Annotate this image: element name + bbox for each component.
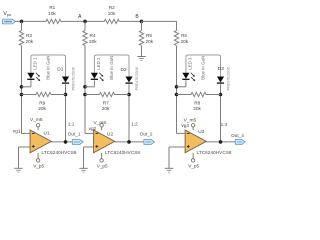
svg-text:R5: R5 [146,33,152,38]
net flag Out_1 [72,140,83,145]
wire noninverting input to ground [19,146,31,148]
LED emission arrows [191,73,194,76]
svg-text:vg4: vg4 [181,123,189,128]
wire V- pin [37,153,39,159]
svg-text:Blue In GaN: Blue In GaN [46,56,51,80]
wire V+ pin [192,127,194,130]
wire R4 top lead [84,21,86,30]
LED LED 3 [182,73,189,79]
svg-text:20k: 20k [102,106,110,112]
svg-text:V_p5: V_p5 [33,164,44,169]
svg-text:1:2: 1:2 [131,121,138,126]
junction R9 right [64,93,68,97]
wire R9 left lead [22,94,37,96]
terminal V_p5 [36,159,39,162]
svg-text:Blue In GaN: Blue In GaN [109,56,114,80]
wire noninverting input to ground [169,146,185,148]
wire R5 top lead [141,21,143,30]
wire inverting input vg4 [177,132,186,134]
junction R8 left [175,93,179,97]
ground U2 + input [79,167,87,169]
svg-text:LTC6240HVCS8: LTC6240HVCS8 [105,150,140,155]
terminal V_m5 [191,124,194,127]
svg-text:vg1: vg1 [13,128,21,133]
LED LED 2 [91,73,98,79]
wire R3 top lead [21,21,23,30]
junction node V_pu tap [20,20,24,24]
svg-text:10k: 10k [108,11,116,16]
svg-text:V_m5: V_m5 [184,117,197,123]
svg-text:10k: 10k [48,11,56,16]
svg-text:V_p5: V_p5 [97,164,108,169]
ground U1 + input [14,167,22,169]
svg-text:20k: 20k [26,39,34,44]
wire R2 to node B [119,20,141,22]
LED emission arrows [36,73,39,76]
wire node B to R6 leg [142,20,177,22]
wire output [51,141,72,143]
wire R8 left lead [177,94,192,96]
wire R9 right lead [51,94,66,96]
pin plus glyph [187,145,190,147]
svg-text:R7: R7 [103,101,109,107]
wire R1 to node A [61,20,105,22]
svg-text:R9: R9 [39,101,45,107]
resistor R6 zigzag [174,31,178,46]
svg-text:Blue In GaN: Blue In GaN [201,56,206,80]
svg-text:U2: U2 [107,131,113,137]
svg-text:D2: D2 [121,67,127,73]
svg-text:R2: R2 [109,5,115,10]
svg-text:20k: 20k [89,39,97,44]
wire R7 right lead [115,94,130,96]
wire R7 left lead [85,94,100,96]
svg-text:1:1: 1:1 [68,121,75,126]
svg-text:R8: R8 [194,101,200,107]
svg-text:LED 2: LED 2 [96,57,101,70]
junction output [127,140,131,144]
resistor R1 zigzag [46,19,61,23]
svg-text:LTC6240HVCS8: LTC6240HVCS8 [42,150,77,155]
op-amp U1 body [30,130,51,153]
wire inverting input vg1 [22,132,31,134]
svg-text:PRD/7E2006: PRD/7E2006 [71,66,76,90]
wire D3 cathode down to output [220,84,222,142]
wire main vertical node vg2 [84,46,86,134]
wire output [115,141,144,143]
svg-text:V_p5: V_p5 [188,164,199,169]
wire noninverting input to ground [84,146,94,148]
terminal V_m5 [100,124,103,127]
svg-text:U1: U1 [44,131,50,137]
svg-text:Vpu: Vpu [3,11,11,17]
LED emission arrows [99,73,102,76]
wire R6 top lead [176,21,178,30]
ground ladder termination [137,56,145,58]
wire output [206,141,235,143]
svg-text:LED 3: LED 3 [188,57,193,70]
svg-text:Out_1: Out_1 [68,131,81,136]
wire V+ pin [101,127,103,130]
svg-text:D3: D3 [218,66,224,72]
wire main vertical node vg4 [176,46,178,134]
wire gray anode rail LED to diode [94,55,129,77]
junction R7 left [83,93,87,97]
ground U3 + input [165,167,173,169]
svg-text:R4: R4 [90,33,96,38]
wire V_pu to R1 [15,20,46,22]
wire R8 right lead [206,94,221,96]
svg-text:LTC6240HVCS8: LTC6240HVCS8 [197,150,232,155]
svg-text:U3: U3 [198,129,204,135]
wire D2 cathode down to output [128,84,130,142]
diode D3 [217,77,224,83]
junction output [64,140,68,144]
svg-text:V_m5: V_m5 [94,120,107,126]
terminal V_p5 [100,159,103,162]
svg-text:V_m5: V_m5 [30,117,43,123]
pin plus glyph [32,145,35,147]
svg-text:R3: R3 [26,33,32,38]
pin minus glyph [187,132,190,134]
svg-text:D1: D1 [57,67,63,73]
resistor R4 zigzag [83,31,87,46]
resistor R9 zigzag [36,92,51,96]
junction output [219,140,223,144]
svg-text:Out_4: Out_4 [231,133,244,138]
wire LED cathode return [93,80,95,87]
resistor R7 zigzag [100,92,115,96]
terminal V_m5 [36,124,39,127]
svg-text:20k: 20k [193,106,201,112]
wire D1 cathode down to output [65,84,67,142]
svg-text:vg2: vg2 [89,126,97,131]
net flag V_pu [3,19,16,24]
pin minus glyph [32,132,35,134]
svg-text:PRD/7E2006: PRD/7E2006 [134,66,139,90]
svg-text:20k: 20k [146,39,154,44]
diode D2 [125,77,132,83]
resistor R5 zigzag [139,31,143,46]
diode D1 [62,77,69,83]
junction R8 right [219,93,223,97]
svg-text:R1: R1 [49,5,55,10]
wire V- pin [101,153,103,159]
op-amp U2 body [94,130,115,153]
svg-text:R6: R6 [181,33,187,38]
resistor R8 zigzag [191,92,206,96]
wire LED cathode return [30,80,32,87]
wire V- pin [192,153,194,159]
net flag Out_2 [144,140,155,145]
svg-text:20k: 20k [38,106,46,112]
pin minus glyph [95,132,98,134]
pin plus glyph [95,145,98,147]
svg-text:PRD/7E2006: PRD/7E2006 [226,66,231,90]
junction R9 left [20,93,24,97]
wire inverting input vg2 [85,132,94,134]
wire main vertical node vg1 [21,46,23,134]
LED LED 1 [27,73,34,79]
svg-text:1:4: 1:4 [221,122,228,127]
resistor R3 zigzag [19,31,23,46]
op-amp U3 body [185,130,206,153]
junction LED return [20,85,24,89]
svg-text:20k: 20k [181,39,189,44]
junction LED return [83,85,87,89]
wire R5 to ground [141,46,143,57]
svg-text:LED 1: LED 1 [33,57,38,70]
net flag Out_4 [235,140,245,145]
junction R7 right [127,93,131,97]
wire gray anode rail LED to diode [186,55,221,77]
wire LED cathode return [185,80,187,87]
junction LED return [175,85,179,89]
wire gray anode rail LED to diode [31,55,66,77]
terminal V_p5 [191,159,194,162]
wire V+ pin [37,127,39,130]
resistor R2 zigzag [104,19,119,23]
svg-text:Out_2: Out_2 [140,132,153,137]
